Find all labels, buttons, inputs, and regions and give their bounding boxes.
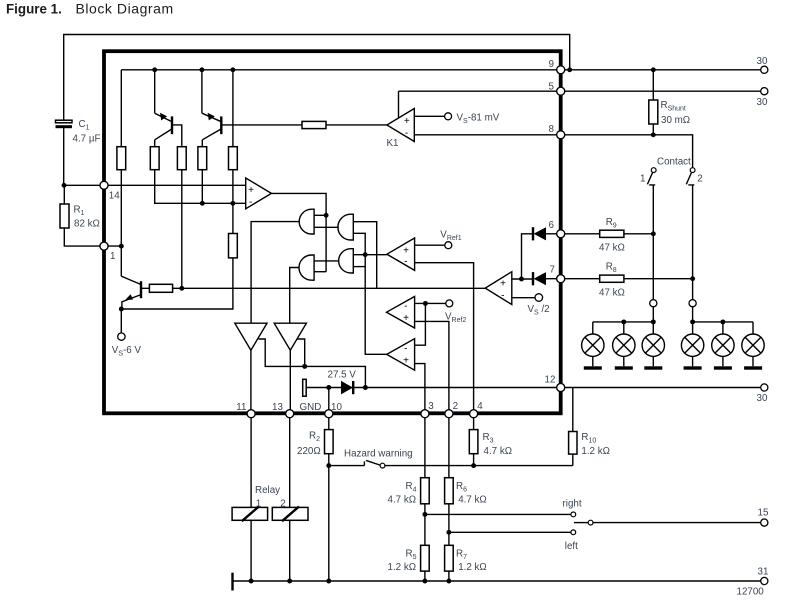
svg-text:2: 2 — [697, 174, 702, 185]
svg-text:1.2 kΩ: 1.2 kΩ — [388, 562, 417, 573]
svg-text:1: 1 — [640, 174, 645, 185]
svg-text:-: - — [404, 301, 407, 312]
wire: rail to R105 — [232, 70, 234, 147]
svg-text:30: 30 — [757, 393, 768, 404]
svg-text:R6: R6 — [456, 481, 467, 494]
wire: node pin14 down to R1, R1 to pin 1 — [64, 185, 121, 246]
wire: R103 bottom to Q3 base node — [181, 170, 183, 289]
svg-text:R5: R5 — [406, 549, 417, 562]
resistor R106 internal — [229, 234, 238, 258]
resistor R103 internal — [177, 147, 186, 170]
wire: pin 9 line to terminal 30 — [561, 69, 765, 71]
svg-text:3: 3 — [428, 401, 434, 412]
zener diode 27.5V — [341, 381, 353, 395]
junction C1 R1 pin14 — [62, 183, 67, 188]
resistor R7 — [445, 545, 454, 571]
resistor R102 internal — [150, 147, 159, 170]
junction rail relay 2 — [287, 579, 292, 584]
junction lamp bus L3 — [651, 319, 656, 324]
wire: driver taps to zener node — [259, 339, 366, 388]
wire: driver B2 tap — [297, 339, 305, 366]
wire: relay coil 2 column — [289, 418, 291, 581]
wire: Q2 base to K1 input resistor to K1 tip — [221, 124, 387, 126]
gate G1 — [299, 209, 314, 235]
wire: gate G4 input stub 2 — [353, 266, 365, 268]
svg-text:VS-6 V: VS-6 V — [112, 345, 142, 358]
switch contact 2 — [690, 168, 695, 173]
svg-text:4.7 kΩ: 4.7 kΩ — [484, 446, 513, 457]
pin 4 — [470, 410, 478, 418]
terminal VS/2 — [535, 294, 543, 302]
resistor R9 — [600, 230, 624, 237]
junction diode riser K5 plus — [519, 277, 524, 282]
terminal VRef2 — [446, 300, 453, 307]
gate G4 — [339, 248, 354, 274]
wire: gate G4 output to gate G3 input — [314, 260, 339, 262]
wire: GND node riser pin 10 — [328, 388, 330, 419]
junction latch riser gate G1 input — [324, 213, 329, 218]
resistor R8 — [600, 275, 624, 282]
svg-text:left: left — [565, 541, 578, 552]
terminal 30 second — [761, 88, 768, 95]
junction VRef2 line riser — [423, 301, 428, 306]
wire: R3 column pin 4 — [473, 418, 475, 466]
junction K2 output gate G4 input — [363, 252, 368, 257]
wire: contact 2 lower column — [692, 185, 694, 300]
capacitor C1 — [56, 120, 73, 123]
wire: R105 bottom through minus line to R106 — [232, 170, 234, 234]
lamp terminal right — [689, 300, 696, 307]
relay coil 1 — [232, 507, 268, 520]
svg-text:-: - — [404, 256, 407, 267]
svg-text:R1: R1 — [74, 205, 85, 218]
svg-text:4.7 kΩ: 4.7 kΩ — [388, 494, 417, 505]
svg-text:13: 13 — [272, 402, 283, 413]
junction GND riser zener line — [326, 385, 331, 390]
pin 11 — [247, 410, 255, 418]
junction Q3 emitter node — [119, 307, 124, 312]
wire: pin 6 through R9 to contact1 column — [561, 233, 654, 235]
zener plate capacitor — [303, 379, 307, 396]
comparator K5 — [485, 272, 512, 305]
wire: relay coil 1 column — [250, 418, 252, 581]
wire: driver B1 output to pin 11 — [250, 350, 252, 414]
svg-text:14: 14 — [109, 190, 120, 201]
resistor R104 internal — [198, 147, 207, 170]
wire: pin 12 line to terminal 30 — [561, 387, 765, 389]
svg-text:47 kΩ: 47 kΩ — [599, 242, 625, 253]
ground bar terminal at rail end — [231, 573, 233, 591]
junction R8 contact 2 — [690, 276, 695, 281]
wire: pin 14 external — [64, 184, 104, 186]
svg-text:-: - — [404, 344, 407, 355]
svg-text:82 kΩ: 82 kΩ — [74, 219, 100, 230]
pin 14 — [100, 181, 108, 189]
svg-text:Relay: Relay — [255, 485, 280, 496]
svg-text:RShunt: RShunt — [661, 100, 686, 113]
resistor R101 internal — [117, 147, 126, 170]
wire: gate G4 input stub from comparator K2 output — [353, 254, 387, 256]
junction lamp bus L4 — [690, 319, 695, 324]
svg-text:9: 9 — [549, 59, 554, 70]
svg-text:1: 1 — [256, 498, 261, 509]
wire: Q1 collector to R102 — [154, 140, 156, 147]
wire: gate G3 output to driver B2 — [290, 268, 300, 323]
pin 8 — [557, 131, 565, 139]
junction pin 1 node — [119, 244, 124, 249]
transistor Q2 — [202, 113, 221, 140]
wire: Q3 base line to comparator K5 tip — [141, 287, 485, 289]
pin 13 — [286, 410, 294, 418]
svg-text:Hazard warning: Hazard warning — [344, 448, 413, 459]
pin 12 — [557, 383, 565, 391]
svg-text:Figure 1.Block Diagram: Figure 1.Block Diagram — [6, 0, 174, 16]
svg-text:R7: R7 — [456, 549, 467, 562]
wire: R10 column — [572, 388, 574, 466]
junction rail Q1 emitter — [152, 67, 157, 72]
svg-text:30 mΩ: 30 mΩ — [661, 115, 690, 126]
svg-text:-: - — [501, 291, 504, 302]
wire: right contact line — [425, 513, 571, 515]
wire: R2 column pin 10 to bottom rail — [328, 418, 330, 581]
svg-text:VRef2: VRef2 — [445, 312, 466, 325]
wire: comparator K1 plus input to VS-81mV — [414, 115, 444, 117]
svg-text:C1: C1 — [79, 119, 90, 132]
wire: R102 bottom to op-amp minus line — [155, 170, 246, 204]
switch left contact — [571, 530, 576, 535]
lamp L2 — [613, 322, 635, 370]
lamp L5 — [712, 322, 734, 370]
switch pole lever — [574, 522, 588, 524]
svg-text:right: right — [563, 499, 582, 510]
junction lamp bus L2 — [621, 319, 626, 324]
wire: C1 top to outer loop down to pin 9 node — [64, 35, 570, 122]
svg-text:1.2 kΩ: 1.2 kΩ — [458, 562, 487, 573]
pin 7 — [557, 275, 565, 283]
switch right contact — [571, 512, 576, 517]
lamp terminal left — [650, 300, 657, 307]
wire: pin 7 through R8 to contact2 column — [561, 278, 693, 280]
pin 1 — [100, 242, 108, 250]
svg-text:2: 2 — [280, 498, 285, 509]
terminal VS-81mV — [445, 113, 452, 120]
wire: diode D2 anode to pin 7 — [546, 278, 561, 280]
wire: bottom rail to terminal 31 — [233, 580, 765, 582]
terminal 30 lower — [761, 384, 768, 391]
pin 6 — [557, 230, 565, 238]
wire: comparator K4 plus input to pin 3 column — [415, 364, 425, 418]
svg-text:5: 5 — [549, 81, 555, 92]
pin 10 — [325, 410, 333, 418]
svg-text:12700: 12700 — [737, 586, 765, 597]
svg-text:K1: K1 — [387, 138, 399, 149]
svg-text:-: - — [249, 197, 252, 208]
wire: Q1 base to R103 — [172, 125, 182, 147]
wire: comparator K5 minus input to VS/2 — [512, 297, 536, 299]
lamp L4 — [681, 322, 703, 370]
resistor R5 — [421, 545, 430, 571]
junction driver taps — [302, 364, 307, 369]
wire: diode D1 anode to pin 6 — [546, 233, 561, 235]
resistor R10 — [569, 432, 577, 455]
resistor RShunt — [649, 100, 658, 124]
wire: left contact line — [449, 531, 571, 533]
wire: op-amp U1 output to latch riser — [271, 193, 326, 271]
wire: comparator K3 minus input to VRef2 — [415, 302, 446, 304]
wire: pin 8 line to contacts — [414, 135, 692, 168]
svg-text:+: + — [403, 246, 409, 257]
wire: pin 1 column to VS-6V terminal — [120, 246, 122, 333]
wire: gate G1 output to driver B1 — [251, 222, 299, 323]
wire: hazard line R2 node to R10 — [329, 465, 573, 467]
svg-text:+: + — [248, 185, 254, 196]
diode D1 — [534, 227, 546, 240]
wire: rail to R101 — [120, 70, 122, 147]
junction left line R6 — [446, 530, 451, 535]
terminal 31 — [761, 577, 768, 584]
wire: gate G1 input stub — [314, 214, 326, 216]
junction RShunt top — [651, 67, 656, 72]
pin 5 — [557, 87, 565, 95]
svg-text:Contact: Contact — [657, 156, 691, 167]
transistor Q1 — [155, 113, 172, 140]
resistor R3 — [469, 430, 478, 454]
wire: comparator K4 output line — [365, 353, 386, 355]
svg-text:R3: R3 — [483, 432, 494, 445]
svg-text:11: 11 — [236, 402, 246, 413]
junction R105 minus line — [230, 201, 235, 206]
svg-text:6: 6 — [549, 220, 555, 231]
svg-text:VS /2: VS /2 — [528, 304, 550, 317]
junction R9 contact 1 — [651, 231, 656, 236]
wire: comparator K5 plus input to diodes — [512, 278, 533, 280]
lamp L3 — [642, 322, 664, 370]
terminal 15 — [761, 519, 768, 526]
junction zener cathode node — [363, 385, 368, 390]
transistor Q3 — [121, 276, 141, 309]
svg-text:R9: R9 — [606, 217, 617, 230]
svg-text:4: 4 — [477, 401, 483, 412]
resistor K1 input — [302, 121, 326, 128]
wire: switch pole to terminal 15 — [593, 522, 764, 524]
wire: lamp bus right group — [693, 307, 753, 322]
junction outer loop / pin 9 line — [567, 67, 572, 72]
junction RShunt bottom pin 8 line — [651, 132, 656, 137]
comparator K1 — [387, 109, 414, 142]
wire: pin 5 line to K1 supply tap and terminal 30 — [399, 91, 765, 118]
svg-text:R4: R4 — [406, 481, 417, 494]
wire: R101 bottom down pin1 node — [120, 170, 122, 246]
comparator K3 — [387, 297, 415, 329]
svg-text:4.7 µF: 4.7 µF — [73, 134, 101, 145]
wire: comparator K3 plus input to pin 2 column — [415, 321, 449, 418]
junction rail Q2 emitter — [199, 67, 204, 72]
wire: Q2 emitter feed — [201, 70, 203, 113]
wire: internal top rail — [121, 69, 560, 71]
svg-text:GND: GND — [300, 402, 322, 413]
comparator K2 — [387, 238, 415, 270]
wire: VRef2 riser to comparator K4 minus input — [415, 303, 426, 345]
junction hazard R3 — [471, 463, 476, 468]
wire: contact 1 lower column — [652, 185, 654, 300]
wire: gate G3 input stub 2 — [314, 271, 326, 273]
terminal 30 top — [761, 66, 768, 73]
terminal VRef1 — [445, 242, 452, 249]
pin 9 — [557, 66, 565, 74]
svg-text:27.5 V: 27.5 V — [328, 370, 357, 381]
junction rail R5 — [422, 579, 427, 584]
wire: pin 3 column through R4 R5 to bottom rail — [424, 418, 426, 581]
svg-text:220Ω: 220Ω — [297, 446, 321, 457]
wire: Q1 emitter feed — [154, 70, 156, 113]
wire: comparator K2 minus input to pin 4 column — [415, 263, 474, 418]
wire: diode cathodes junction riser — [522, 234, 534, 279]
wire: driver B2 output to pin 13 — [289, 350, 291, 414]
svg-text:15: 15 — [758, 508, 769, 519]
wire: R106 bottom around to Q3 emitter node — [121, 258, 233, 309]
wire: pin 2 column through R6 R7 to bottom rail — [448, 418, 450, 581]
op-amp U1 — [246, 178, 272, 209]
junction rail R2 column — [326, 579, 331, 584]
svg-text:-: - — [405, 128, 408, 139]
switch hazard warning — [364, 460, 379, 465]
comparator K4 — [387, 339, 415, 371]
wire: R104 bottom to minus line — [201, 170, 203, 204]
driver B2 — [274, 323, 306, 350]
junction rail relay 1 — [249, 579, 254, 584]
resistor R4 — [421, 478, 430, 504]
svg-text:+: + — [500, 279, 506, 290]
IC boundary box — [104, 51, 561, 413]
lamp L6 — [742, 322, 764, 370]
wire: gate G2 input stub 2 riser down to comparator K4 output line — [353, 233, 365, 355]
pin 2 — [445, 410, 453, 418]
wire: zener line from plate to pin 12 — [306, 387, 560, 389]
pin 3 — [421, 410, 429, 418]
resistor Q3 base — [149, 284, 172, 292]
junction right line R4 — [422, 512, 427, 517]
driver B1 — [235, 323, 267, 350]
junction rail R105 — [230, 67, 235, 72]
junction Q3 base node — [179, 286, 184, 291]
svg-text:1: 1 — [110, 251, 115, 262]
wire: RShunt column — [652, 70, 654, 135]
junction R104 minus line — [200, 201, 205, 206]
svg-text:47 kΩ: 47 kΩ — [599, 287, 625, 298]
svg-text:8: 8 — [549, 124, 555, 135]
wire: comparator K2 plus input to VRef1 — [415, 244, 445, 246]
wire: gate G2 output to gate G1 input — [314, 226, 339, 228]
wire: Q2 collector to R104 — [201, 140, 203, 147]
diode D2 — [534, 272, 546, 285]
svg-text:7: 7 — [550, 265, 555, 276]
svg-text:VS-81 mV: VS-81 mV — [457, 113, 500, 126]
junction lamp bus L5 — [720, 319, 725, 324]
junction hazard R2 — [326, 463, 331, 468]
svg-text:31: 31 — [758, 567, 769, 578]
svg-text:12: 12 — [545, 375, 556, 386]
svg-text:10: 10 — [331, 402, 342, 413]
wire: C1 bottom to pin 14 node — [63, 128, 65, 185]
relay coil 2 — [272, 507, 308, 520]
switch contact 1 — [651, 168, 656, 173]
svg-text:30: 30 — [757, 56, 768, 67]
terminal VS-6V — [118, 333, 125, 340]
wire: gate G2 input stub to long rail — [353, 222, 376, 289]
junction rail R7 — [446, 579, 451, 584]
gate G3 — [299, 254, 315, 280]
wire: pin 14 line to op-amp plus input — [104, 184, 246, 186]
wire: lamp bus left group — [593, 307, 654, 322]
svg-text:+: + — [404, 116, 410, 127]
resistor R6 — [445, 478, 454, 504]
svg-text:R8: R8 — [606, 262, 617, 275]
svg-text:+: + — [403, 355, 409, 366]
svg-text:R10: R10 — [581, 432, 596, 445]
svg-text:4.7 kΩ: 4.7 kΩ — [458, 494, 487, 505]
svg-text:30: 30 — [757, 97, 768, 108]
svg-text:+: + — [403, 313, 409, 324]
svg-text:VRef1: VRef1 — [440, 229, 461, 242]
resistor R1 — [60, 204, 69, 228]
svg-text:R2: R2 — [309, 430, 320, 443]
gate G2 — [338, 214, 354, 241]
svg-text:2: 2 — [453, 401, 458, 412]
svg-text:1.2 kΩ: 1.2 kΩ — [581, 446, 610, 457]
resistor R2 — [325, 430, 334, 454]
lamp L1 — [582, 322, 604, 370]
resistor R105 internal — [229, 147, 238, 170]
